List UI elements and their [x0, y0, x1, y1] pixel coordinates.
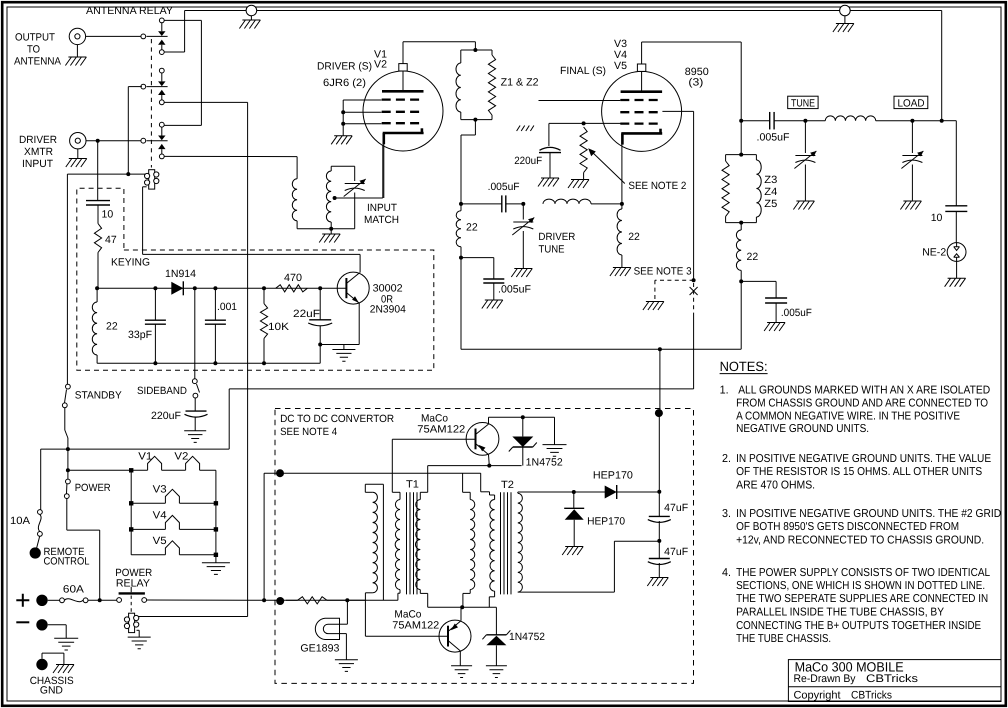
signal ground — [451, 666, 472, 678]
node — [318, 286, 322, 290]
boxed label LOAD — [894, 96, 928, 108]
wire plate up — [641, 42, 643, 64]
wire — [319, 288, 321, 320]
capacitor 10 output sampling — [945, 205, 967, 207]
wire — [911, 121, 913, 153]
switch lever — [197, 384, 200, 393]
wire down to B+ bus — [460, 258, 462, 350]
wire — [97, 253, 99, 289]
wire — [320, 344, 359, 346]
chassis ground — [65, 57, 86, 66]
wire — [549, 152, 551, 178]
svg-text:75AM122: 75AM122 — [417, 424, 465, 436]
node — [318, 343, 322, 347]
wire — [522, 231, 524, 269]
wire — [330, 229, 332, 234]
relay contact circle — [117, 598, 122, 603]
trimmer capacitor input match — [345, 183, 365, 185]
node output — [940, 119, 944, 123]
tube heater V1 — [148, 456, 162, 470]
node keying line — [95, 286, 99, 290]
node — [487, 464, 491, 468]
inductor Z1Z2 choke — [456, 63, 461, 112]
relay contact circle — [142, 598, 147, 603]
wire — [774, 120, 805, 122]
wire — [460, 50, 462, 63]
node +12V (big dot on box edge) — [276, 597, 284, 605]
tube heater V5 — [165, 541, 179, 555]
node Z1Z2 bottom — [473, 118, 477, 122]
inductor 22 driver tank — [456, 211, 461, 247]
wire — [460, 112, 462, 120]
wire keying bottom bus — [97, 362, 320, 364]
svg-text:T2: T2 — [501, 479, 514, 491]
dashed box KEYING section — [77, 188, 434, 370]
node — [460, 605, 464, 609]
signal ground — [54, 638, 78, 650]
transformer T2 primary — [489, 492, 491, 495]
wire — [228, 389, 230, 449]
wire — [200, 20, 202, 125]
svg-text:SIDEBAND: SIDEBAND — [137, 385, 187, 397]
chassis ground isolated — [610, 268, 631, 277]
node — [96, 139, 100, 143]
vacuum tube V1/V2 6JR6 driver — [363, 71, 443, 151]
node Z1Z2 top — [473, 48, 477, 52]
junction square — [214, 527, 218, 531]
relay actuator dashed — [130, 596, 132, 613]
resistor 47 — [94, 224, 101, 253]
svg-text:TO: TO — [27, 44, 40, 56]
wire pole1 NO — [164, 51, 184, 53]
svg-text:V2: V2 — [374, 59, 387, 71]
arrow SEE NOTE 2 — [591, 151, 625, 184]
wire B+ — [658, 413, 660, 516]
resistor ballast (unlabeled) — [298, 597, 328, 604]
wire — [642, 41, 742, 43]
trimmer capacitor DRIVER TUNE — [513, 221, 533, 223]
trimmer capacitor LOAD — [902, 155, 922, 157]
transformer T2 core — [500, 492, 502, 594]
wire — [693, 314, 695, 389]
svg-text:V4: V4 — [153, 510, 167, 522]
svg-text:IN POSITIVE NEGATIVE GROUND UN: IN POSITIVE NEGATIVE GROUND UNITS. THE #… — [736, 508, 1001, 520]
terminal - — [36, 619, 47, 630]
wire coax to relay pole 1 — [86, 35, 141, 37]
svg-text:47uF: 47uF — [664, 502, 688, 514]
svg-text:Re-Drawn By: Re-Drawn By — [794, 673, 856, 685]
wire — [331, 165, 355, 167]
coax connector J1 output to antenna — [69, 28, 85, 44]
wire — [740, 281, 742, 349]
svg-text:STANDBY: STANDBY — [75, 390, 122, 402]
resistor 470 — [276, 285, 308, 292]
inductor 22 final tank — [736, 230, 741, 270]
svg-text:IN POSITIVE NEGATIVE GROUND UN: IN POSITIVE NEGATIVE GROUND UNITS. THE V… — [736, 453, 991, 465]
svg-text:Z3: Z3 — [764, 174, 777, 186]
wire — [194, 417, 196, 431]
wire — [40, 449, 42, 509]
wire — [343, 345, 345, 350]
svg-text:GND: GND — [40, 685, 63, 697]
terminal + battery positive — [16, 594, 29, 607]
node — [341, 110, 345, 114]
node — [329, 227, 333, 231]
lamp GE1893 — [315, 618, 339, 639]
wire — [461, 134, 475, 136]
wire — [97, 205, 99, 224]
wire +12 screen feed — [549, 122, 621, 124]
wire up to final cathode — [621, 133, 623, 204]
wire — [506, 203, 524, 205]
wire — [179, 554, 216, 556]
wire winding A to Q2 base — [364, 593, 366, 636]
signal ground — [335, 660, 358, 672]
node — [692, 278, 696, 282]
svg-text:.005uF: .005uF — [757, 132, 790, 144]
svg-text:Z1 & Z2: Z1 & Z2 — [501, 77, 539, 89]
wire — [522, 204, 524, 220]
node — [345, 598, 349, 602]
svg-text:CONNECTING THE B+ OUTPUTS TOGE: CONNECTING THE B+ OUTPUTS TOGETHER INSID… — [736, 620, 981, 632]
node tap — [333, 196, 337, 200]
node — [98, 598, 102, 602]
wire — [613, 541, 615, 592]
node — [459, 256, 463, 260]
wire — [319, 326, 321, 363]
transistor Q3 30002/2N3904 — [337, 272, 369, 304]
wire — [554, 417, 556, 444]
wire — [154, 288, 156, 320]
wire winding A to +12V — [382, 484, 384, 600]
wire B to Q1 base line — [391, 439, 393, 492]
wire — [99, 530, 101, 600]
svg-text:47uF: 47uF — [664, 546, 688, 558]
diode HEP170 series — [605, 486, 617, 499]
wire — [461, 49, 492, 51]
svg-text:Z4: Z4 — [764, 186, 777, 198]
svg-text:NE-2: NE-2 — [922, 247, 946, 259]
wire — [428, 606, 497, 608]
switch contact — [64, 494, 69, 499]
wire to T2 primary — [480, 473, 482, 492]
dashed box DC TO DC CONVERTOR (note 4 second section) — [275, 409, 694, 684]
power relay coil K2 — [129, 613, 135, 632]
svg-text:CBTricks: CBTricks — [866, 673, 919, 685]
node — [153, 286, 157, 290]
boxed label TUNE — [788, 96, 818, 108]
node — [262, 286, 266, 290]
svg-text:OF BOTH 8950'S GETS DISCONNECT: OF BOTH 8950'S GETS DISCONNECTED FROM — [736, 521, 959, 533]
wire — [911, 165, 913, 202]
wire — [382, 145, 384, 199]
wire — [179, 502, 216, 504]
wire — [493, 283, 495, 300]
wire — [876, 120, 942, 122]
wire — [297, 228, 355, 230]
svg-text:THE TUBE CHASSIS.: THE TUBE CHASSIS. — [736, 633, 831, 645]
wire DC input bus — [264, 472, 462, 474]
wire — [741, 120, 770, 122]
svg-text:1N914: 1N914 — [165, 268, 196, 280]
wire — [131, 528, 165, 530]
wire heater bus — [68, 469, 131, 471]
node B+ — [658, 347, 662, 351]
node — [341, 122, 345, 126]
wire — [162, 469, 186, 471]
wire — [489, 416, 555, 418]
node — [657, 490, 661, 494]
chassis ground — [66, 159, 87, 168]
node — [572, 490, 576, 494]
svg-text:INPUT: INPUT — [22, 158, 54, 170]
wire — [263, 473, 265, 600]
node — [262, 598, 266, 602]
node — [521, 415, 525, 419]
chassis ground — [319, 234, 340, 243]
wire Q1 collector — [488, 417, 490, 424]
chassis ground — [239, 20, 260, 29]
junction square — [129, 527, 133, 531]
wire to pole3 NC — [164, 124, 201, 126]
wire — [77, 149, 79, 159]
tube heater V3 — [165, 489, 179, 503]
transformer T1 feedback winding — [365, 483, 383, 485]
svg-text:.005uF: .005uF — [488, 181, 520, 193]
wire coax to pole 3 — [86, 140, 141, 142]
terminal CHASSIS GND — [36, 659, 47, 670]
wire — [296, 221, 298, 229]
svg-text:SECTIONS, ONE WHICH IS SHOWN I: SECTIONS, ONE WHICH IS SHOWN IN DOTTED L… — [736, 580, 985, 592]
wire — [41, 653, 43, 659]
chassis ground — [482, 300, 503, 309]
wire rail down to load node — [941, 11, 943, 121]
wire +12V to DC-DC — [147, 599, 246, 601]
node — [213, 286, 217, 290]
wire +12v run to left — [229, 388, 693, 390]
svg-text:DRIVER: DRIVER — [538, 231, 575, 243]
wire — [194, 398, 196, 411]
wire pole2 NO — [164, 101, 247, 103]
wire — [179, 528, 216, 530]
wire driver tank — [460, 135, 462, 204]
chassis ground — [900, 201, 921, 210]
signal ground — [184, 431, 206, 443]
wire — [131, 469, 147, 471]
svg-text:MATCH: MATCH — [364, 214, 399, 226]
wire to power relay coil — [138, 616, 248, 618]
resistor Z3Z4Z5 — [722, 161, 729, 216]
wire — [68, 448, 229, 450]
wire — [342, 100, 344, 136]
svg-text:1N4752: 1N4752 — [509, 631, 545, 643]
svg-text:3.: 3. — [722, 508, 731, 520]
coax connector J2 driver xmtr input — [70, 133, 86, 149]
svg-text:75AM122: 75AM122 — [392, 620, 439, 632]
wire — [955, 121, 957, 206]
node — [521, 202, 525, 206]
svg-text:+12v, AND RECONNECTED TO CHAS: +12v, AND RECONNECTED TO CHASSIS GROUND. — [736, 535, 984, 547]
wire — [48, 599, 60, 601]
wire — [345, 634, 347, 660]
svg-text:6JR6 (2): 6JR6 (2) — [323, 77, 366, 89]
capacitor .005uF coupling — [501, 195, 503, 212]
svg-text:1.: 1. — [720, 384, 729, 396]
svg-text:22: 22 — [106, 321, 118, 333]
node heater feed — [66, 468, 70, 472]
ground terminal circle — [246, 5, 257, 16]
wire — [200, 469, 216, 471]
svg-text:2.: 2. — [722, 453, 731, 465]
transformer T1 primary (center-tapped U winding) — [427, 466, 429, 493]
svg-text:TUNE: TUNE — [791, 97, 815, 109]
wire — [522, 447, 524, 466]
svg-text:(3): (3) — [688, 77, 703, 89]
switch lever — [65, 390, 67, 403]
chassis ground — [647, 578, 668, 587]
svg-text:V5: V5 — [153, 535, 167, 547]
capacitor 10 pickup — [86, 200, 110, 202]
wire — [127, 87, 129, 175]
capacitor 47uF lower — [649, 558, 670, 560]
wire — [658, 521, 660, 559]
switch POWER contact — [66, 479, 71, 484]
svg-text:T1: T1 — [406, 479, 419, 491]
capacitor .005uF bypass — [765, 297, 787, 299]
wire grid2 down — [693, 111, 695, 280]
wire pole2 down to power line — [247, 102, 249, 600]
wire — [138, 630, 140, 637]
wire grid2 — [343, 111, 381, 113]
node LOAD — [910, 119, 914, 123]
wire top ground rail — [185, 10, 942, 12]
capacitor 220uF sideband — [186, 410, 207, 412]
node B+ output (big dot on box edge) — [655, 409, 663, 417]
wire — [42, 652, 64, 654]
wire +12V bus — [246, 599, 365, 601]
svg-text:Copyright: Copyright — [794, 690, 841, 702]
relay actuator dashed link — [150, 39, 152, 168]
wire — [215, 470, 217, 555]
wire — [137, 629, 140, 631]
svg-text:SEE NOTE 3: SEE NOTE 3 — [634, 265, 692, 277]
svg-text:GE1893: GE1893 — [300, 643, 339, 655]
wire — [942, 120, 957, 122]
signal ground — [486, 666, 507, 678]
svg-text:THE TWO SEPERATE SUPPLIES ARE: THE TWO SEPERATE SUPPLIES ARE CONNECTED … — [736, 593, 988, 605]
terminal + — [36, 595, 47, 606]
svg-text:470: 470 — [284, 272, 302, 284]
wire — [296, 157, 298, 179]
node final cathode — [620, 202, 624, 206]
underline — [720, 373, 768, 375]
capacitor 47uF upper — [649, 515, 670, 517]
wire — [804, 121, 806, 153]
wire Q3 emitter — [358, 303, 360, 344]
svg-text:FROM CHASSIS GROUND AND ARE CO: FROM CHASSIS GROUND AND ARE CONNECTED TO — [736, 398, 988, 410]
wire relay coil to Q3 collector — [143, 253, 361, 255]
svg-text:INPUT: INPUT — [367, 202, 398, 214]
wire — [740, 121, 742, 155]
wire down to standby switch — [66, 174, 68, 384]
fuse 60A terminal — [60, 598, 65, 603]
X isolated ground mark — [690, 287, 698, 295]
svg-text:4.: 4. — [722, 567, 731, 579]
node — [66, 447, 70, 451]
node — [126, 172, 130, 176]
wire — [41, 448, 68, 450]
node — [153, 361, 157, 365]
chassis ground — [568, 180, 589, 189]
svg-text:22: 22 — [747, 251, 759, 263]
wire — [354, 193, 356, 229]
tube heater V4 — [165, 515, 179, 529]
wire — [340, 633, 347, 635]
dashed wire to chassis gnd (note 3) — [655, 279, 694, 281]
diode HEP170 shunt — [564, 507, 584, 509]
svg-text:.001: .001 — [217, 301, 237, 313]
wire — [214, 324, 216, 363]
svg-text:HEP170: HEP170 — [593, 470, 633, 482]
node — [739, 279, 743, 283]
trimmer capacitor TUNE — [795, 155, 815, 157]
wire — [956, 261, 958, 278]
title block — [788, 660, 1001, 702]
relay contact bar — [119, 592, 145, 594]
capacitor 33pF — [145, 319, 166, 321]
switch lever — [66, 484, 68, 494]
relay contact K1a — [159, 18, 164, 23]
neon lamp NE-2 — [947, 243, 966, 262]
diode 1N914 — [171, 282, 183, 295]
svg-text:60A: 60A — [63, 584, 84, 596]
node — [459, 202, 463, 206]
wire — [67, 438, 69, 481]
fuse terminal — [38, 532, 43, 537]
relay contact K1c — [159, 122, 164, 127]
chassis ground — [538, 178, 559, 187]
antenna relay coil K1 — [149, 170, 155, 189]
capacitor .005uF plate blocking — [769, 112, 771, 130]
wire — [263, 338, 265, 363]
svg-text:10: 10 — [102, 209, 114, 221]
svg-text:FINAL (S): FINAL (S) — [560, 65, 606, 77]
wire final grid1 — [539, 100, 621, 102]
wire — [775, 303, 777, 323]
wire — [495, 645, 497, 666]
svg-text:OUTPUT: OUTPUT — [15, 32, 56, 44]
svg-text:47: 47 — [105, 234, 117, 246]
wire keying to sideband switch — [194, 288, 196, 379]
svg-text:NEGATIVE GROUND UNITS.: NEGATIVE GROUND UNITS. — [736, 423, 869, 435]
junction square — [129, 468, 133, 472]
chassis ground — [793, 201, 814, 210]
wire plate to Z1Z2 — [402, 42, 404, 64]
node input (big dot on box edge) — [276, 469, 284, 477]
svg-text:1N4752: 1N4752 — [526, 456, 563, 468]
svg-text:CONTROL: CONTROL — [44, 556, 90, 568]
wire — [184, 11, 186, 53]
inductor Z3Z4Z5 — [756, 160, 761, 217]
wire final grid2 — [662, 110, 693, 112]
resistor 10K — [260, 304, 267, 339]
section link marks //// — [517, 126, 521, 132]
wire — [741, 280, 776, 282]
wire — [63, 653, 65, 664]
svg-text:A COMMON NEGATIVE WIRE. IN TH: A COMMON NEGATIVE WIRE. IN THE POSITIVE — [736, 410, 960, 422]
wire — [48, 624, 66, 626]
svg-text:V5: V5 — [614, 60, 627, 72]
